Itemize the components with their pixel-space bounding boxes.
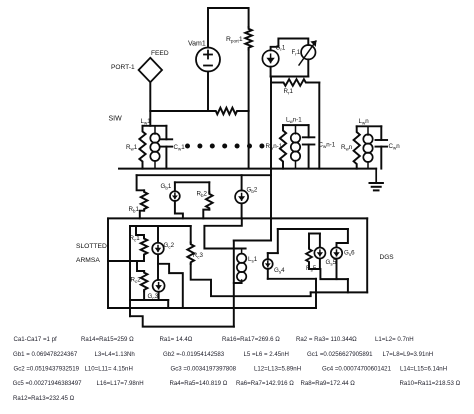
wire Lw1 bottom stub bbox=[154, 161, 156, 169]
wire SIW bottom rail bbox=[119, 168, 376, 170]
wire armsa inner left vertical bbox=[129, 226, 131, 316]
wire Rs5/Gs5 bottom jog bbox=[309, 269, 348, 279]
wire DGS right edge bbox=[366, 218, 368, 292]
wire Rc2 bottom stub bbox=[143, 291, 145, 300]
svg-text:Ra2 = Ra3= 110.344Ω: Ra2 = Ra3= 110.344Ω bbox=[296, 336, 357, 343]
wire Cwn-1 bottom stub bbox=[308, 145, 310, 169]
wire net-A jog to Ls1 bbox=[204, 218, 245, 248]
svg-text:ARMSA: ARMSA bbox=[76, 257, 100, 264]
wire DGS bottom right jog bbox=[347, 279, 349, 292]
wire Rc1 bottom stub bbox=[143, 256, 145, 261]
svg-text:L10=L11= 4.15nH: L10=L11= 4.15nH bbox=[85, 366, 133, 373]
inductor Lwn bbox=[363, 134, 372, 162]
wire Rc3 top stem bbox=[190, 226, 192, 243]
wire Lwn-1 bottom stub bbox=[295, 161, 297, 169]
svg-text:Cwn-1: Cwn-1 bbox=[319, 142, 336, 149]
current source Gb2 bbox=[235, 190, 248, 203]
svg-text:Lwn-1: Lwn-1 bbox=[286, 117, 302, 124]
wire Gs6 top jog bbox=[337, 229, 348, 247]
svg-text:Ra12=Ra13=232.45 Ω: Ra12=Ra13=232.45 Ω bbox=[13, 395, 75, 402]
wire Rb1 bottom jog bbox=[140, 211, 144, 219]
voltage source Vam1 bbox=[196, 48, 220, 72]
capacitor Cwn-1 bbox=[303, 137, 315, 144]
wire Gc2 staircase to bottom bbox=[158, 264, 183, 308]
wire Lwn bottom stub bbox=[367, 162, 369, 169]
wire top loop bbox=[208, 8, 249, 48]
inductor Ls1 bbox=[237, 254, 246, 282]
current source Gs4 bbox=[263, 259, 273, 269]
wire Gs5 bottom stem bbox=[319, 259, 321, 270]
wire Rr1 left stub bbox=[271, 82, 281, 84]
wire Rport1 bottom stem bbox=[248, 50, 250, 112]
wire Rs5-Gs5 top branch bbox=[309, 233, 320, 235]
resistor Rc1 bbox=[141, 237, 148, 256]
parameter text block bbox=[13, 336, 461, 402]
wire Cwn top stub bbox=[380, 126, 382, 140]
resistor Rr1 bbox=[281, 79, 308, 86]
svg-text:SIW: SIW bbox=[109, 116, 123, 123]
wire Rs5 top stem bbox=[308, 234, 310, 248]
wire Gs4 top branch bbox=[268, 252, 278, 254]
wire DGS inner top bbox=[278, 228, 348, 230]
svg-text:Ra1= 14.4Ω: Ra1= 14.4Ω bbox=[160, 336, 193, 343]
resistor Rw1 bbox=[139, 126, 145, 169]
svg-text:L14=L15=6.14nH: L14=L15=6.14nH bbox=[400, 366, 447, 373]
svg-text:Fr1: Fr1 bbox=[292, 49, 301, 56]
wire Cw1 top stub bbox=[165, 126, 167, 140]
svg-text:L16=L17=7.98nH: L16=L17=7.98nH bbox=[97, 380, 144, 387]
wire Ls1 bottom stub bbox=[241, 280, 243, 283]
wire Gc2 to Gc3 bbox=[157, 254, 159, 279]
wire Rb2 bottom jog bbox=[203, 210, 209, 219]
svg-text:Ra10=Ra11=218.53 Ω: Ra10=Ra11=218.53 Ω bbox=[400, 380, 461, 387]
wire Rc1 top jog bbox=[136, 226, 144, 237]
wire Rb1 top jog bbox=[137, 175, 145, 190]
svg-text:Rr1: Rr1 bbox=[284, 88, 294, 95]
wire Gs4 bottom branch bbox=[268, 278, 316, 280]
resistor Rb2 bbox=[206, 192, 213, 209]
svg-text:Ra8=Ra9=172.44 Ω: Ra8=Ra9=172.44 Ω bbox=[301, 380, 356, 387]
wire Gc3 bottom stub bbox=[158, 292, 160, 300]
wire Cw1 bottom stub bbox=[165, 147, 167, 169]
svg-text:Vam1: Vam1 bbox=[188, 40, 206, 47]
resistor series (feed) bbox=[214, 108, 239, 115]
resistor Rs5 bbox=[306, 248, 312, 263]
svg-text:Gb2 =-0.01954142583: Gb2 =-0.01954142583 bbox=[163, 351, 225, 358]
svg-text:L12=L13=5.89nH: L12=L13=5.89nH bbox=[254, 366, 301, 373]
svg-text:Gc1 =0.0256627905891: Gc1 =0.0256627905891 bbox=[307, 351, 373, 358]
resistor Rc2 bbox=[141, 271, 148, 291]
svg-text:Gc5 =0.00271946383497: Gc5 =0.00271946383497 bbox=[13, 380, 83, 387]
wire Gb2 top stem bbox=[241, 175, 243, 190]
wire long-vertical terminal bbox=[234, 240, 271, 242]
resistor Rc3 bbox=[187, 243, 194, 265]
wire Lw1 bracket bbox=[143, 125, 167, 127]
wire Rc2 top jog bbox=[137, 261, 144, 271]
wire down to armsa bottom line bbox=[315, 279, 317, 308]
wire long vertical from Gr1 bbox=[270, 77, 272, 241]
wire Cwn bottom stub bbox=[380, 147, 382, 169]
svg-text:Gc4 =0.00074700601421: Gc4 =0.00074700601421 bbox=[322, 366, 392, 373]
current source Gs6 bbox=[331, 247, 342, 258]
svg-text:Ra14=Ra15=259 Ω: Ra14=Ra15=259 Ω bbox=[81, 336, 134, 343]
svg-text:PORT-1: PORT-1 bbox=[111, 64, 135, 71]
wire Cwn-1 top stub bbox=[308, 125, 310, 137]
current source Gr1 bbox=[262, 50, 278, 66]
current source Gb1 bbox=[170, 191, 180, 201]
wire F-block bottom bbox=[271, 76, 309, 78]
wire armsa mid branch bbox=[108, 260, 144, 262]
wire Gb1 top stem bbox=[174, 182, 176, 191]
current source Gs5 bbox=[314, 248, 325, 259]
controlled source Fr1 bbox=[299, 41, 316, 65]
wire Gs4 bottom stem bbox=[267, 269, 269, 279]
wire Gb2 bottom stem bbox=[241, 203, 243, 218]
wire Gs4 top stem bbox=[267, 253, 269, 259]
resistor Rport1 bbox=[245, 27, 252, 50]
wire Gb1 bottom jog bbox=[175, 201, 183, 218]
resistor Rwn-1 bbox=[280, 125, 286, 169]
wire Fr1 bottom bbox=[307, 59, 309, 76]
svg-text:Gc2 =0.0519437932519: Gc2 =0.0519437932519 bbox=[14, 366, 80, 373]
wire Rs5 bottom stub bbox=[308, 263, 310, 269]
svg-text:SLOTTED: SLOTTED bbox=[76, 243, 107, 250]
resistor Rb1 bbox=[141, 190, 148, 210]
svg-text:FEED: FEED bbox=[151, 50, 169, 57]
svg-text:Gc3 =0.0034197397808: Gc3 =0.0034197397808 bbox=[171, 366, 237, 373]
wire Gs5 top stem bbox=[319, 234, 321, 248]
current source Gc3 bbox=[153, 280, 165, 292]
svg-text:L5 =L6 = 2.45nH: L5 =L6 = 2.45nH bbox=[244, 351, 289, 358]
wire to Rport1 stem bbox=[239, 110, 249, 112]
wire armsa left edge bbox=[107, 218, 109, 308]
wire Gr1 bottom bbox=[270, 67, 272, 77]
ground bbox=[370, 169, 383, 191]
svg-text:L1=L2= 0.7nH: L1=L2= 0.7nH bbox=[375, 336, 414, 343]
inductor Lwn-1 bbox=[291, 133, 300, 161]
resistor Rwn bbox=[354, 126, 360, 168]
wire DGS bottom edge bbox=[311, 291, 368, 293]
wire F-block top bracket bbox=[271, 39, 309, 51]
wire Vam1 bottom stem bbox=[207, 72, 209, 112]
wire Ls1 left rail down bbox=[233, 241, 235, 327]
wire Rb2 top stub bbox=[208, 182, 210, 192]
capacitor Cwn bbox=[376, 140, 388, 147]
wire Gb inner bracket bbox=[175, 181, 209, 183]
svg-text:Ra4=Ra5=140.819 Ω: Ra4=Ra5=140.819 Ω bbox=[170, 380, 228, 387]
wire Lwn-1 top stub bbox=[295, 125, 297, 134]
wire F-block right down to rail bbox=[318, 83, 320, 169]
svg-text:Ls1: Ls1 bbox=[248, 256, 258, 263]
svg-text:Gb1 = 0.069478224367: Gb1 = 0.069478224367 bbox=[13, 351, 78, 358]
wire Lwn-1 bracket bbox=[283, 124, 309, 126]
wire Ls1 top stub bbox=[241, 249, 243, 254]
wire branch down to bottom bbox=[167, 300, 169, 308]
svg-text:Ca1-Ca17 =1 pf: Ca1-Ca17 =1 pf bbox=[14, 336, 57, 343]
wire feed-resistor node down to rail bbox=[248, 111, 250, 169]
wire Gc2 top stem bbox=[157, 226, 159, 243]
capacitor Cw1 bbox=[161, 139, 173, 146]
wire Rc2/Gc3 bottom branch bbox=[130, 299, 168, 301]
svg-text:Ra16=Ra17=269.6 Ω: Ra16=Ra17=269.6 Ω bbox=[222, 336, 280, 343]
port FEED diamond bbox=[139, 58, 162, 82]
wire Gb top rail bbox=[137, 174, 271, 176]
wire Gs6 bottom stem bbox=[336, 259, 338, 279]
wire Rc3 bottom route to DGS bbox=[191, 264, 311, 296]
wire Lw1 top stub bbox=[154, 126, 156, 134]
svg-text:L3=L4=1.13Nh: L3=L4=1.13Nh bbox=[95, 351, 135, 358]
wire feed node horizontal bbox=[150, 110, 214, 112]
wire armsa lowest line bbox=[130, 316, 234, 326]
wire Lwn top stub bbox=[367, 126, 369, 135]
svg-text:DGS: DGS bbox=[380, 254, 395, 261]
svg-text:Ra6=Ra7=142.916 Ω: Ra6=Ra7=142.916 Ω bbox=[236, 380, 294, 387]
ellipsis dots (repeated cells) bbox=[185, 144, 264, 149]
current source Gc2 bbox=[152, 243, 164, 255]
wire Gb bottom rail / DGS top bbox=[108, 217, 367, 219]
inductor Lw1 bbox=[150, 133, 159, 161]
svg-text:L7=L8=L9=3.91nH: L7=L8=L9=3.91nH bbox=[383, 351, 434, 358]
wire Rr1 right stub bbox=[308, 82, 319, 84]
wire Lwn bracket bbox=[357, 125, 382, 127]
wire feed down to SIW bbox=[149, 82, 151, 126]
wire Gs4 riser bbox=[277, 229, 279, 253]
wire armsa bottom line bbox=[108, 307, 316, 309]
wire armsa inner top bbox=[130, 225, 191, 227]
wire Ls1 bottom bbox=[234, 282, 242, 284]
